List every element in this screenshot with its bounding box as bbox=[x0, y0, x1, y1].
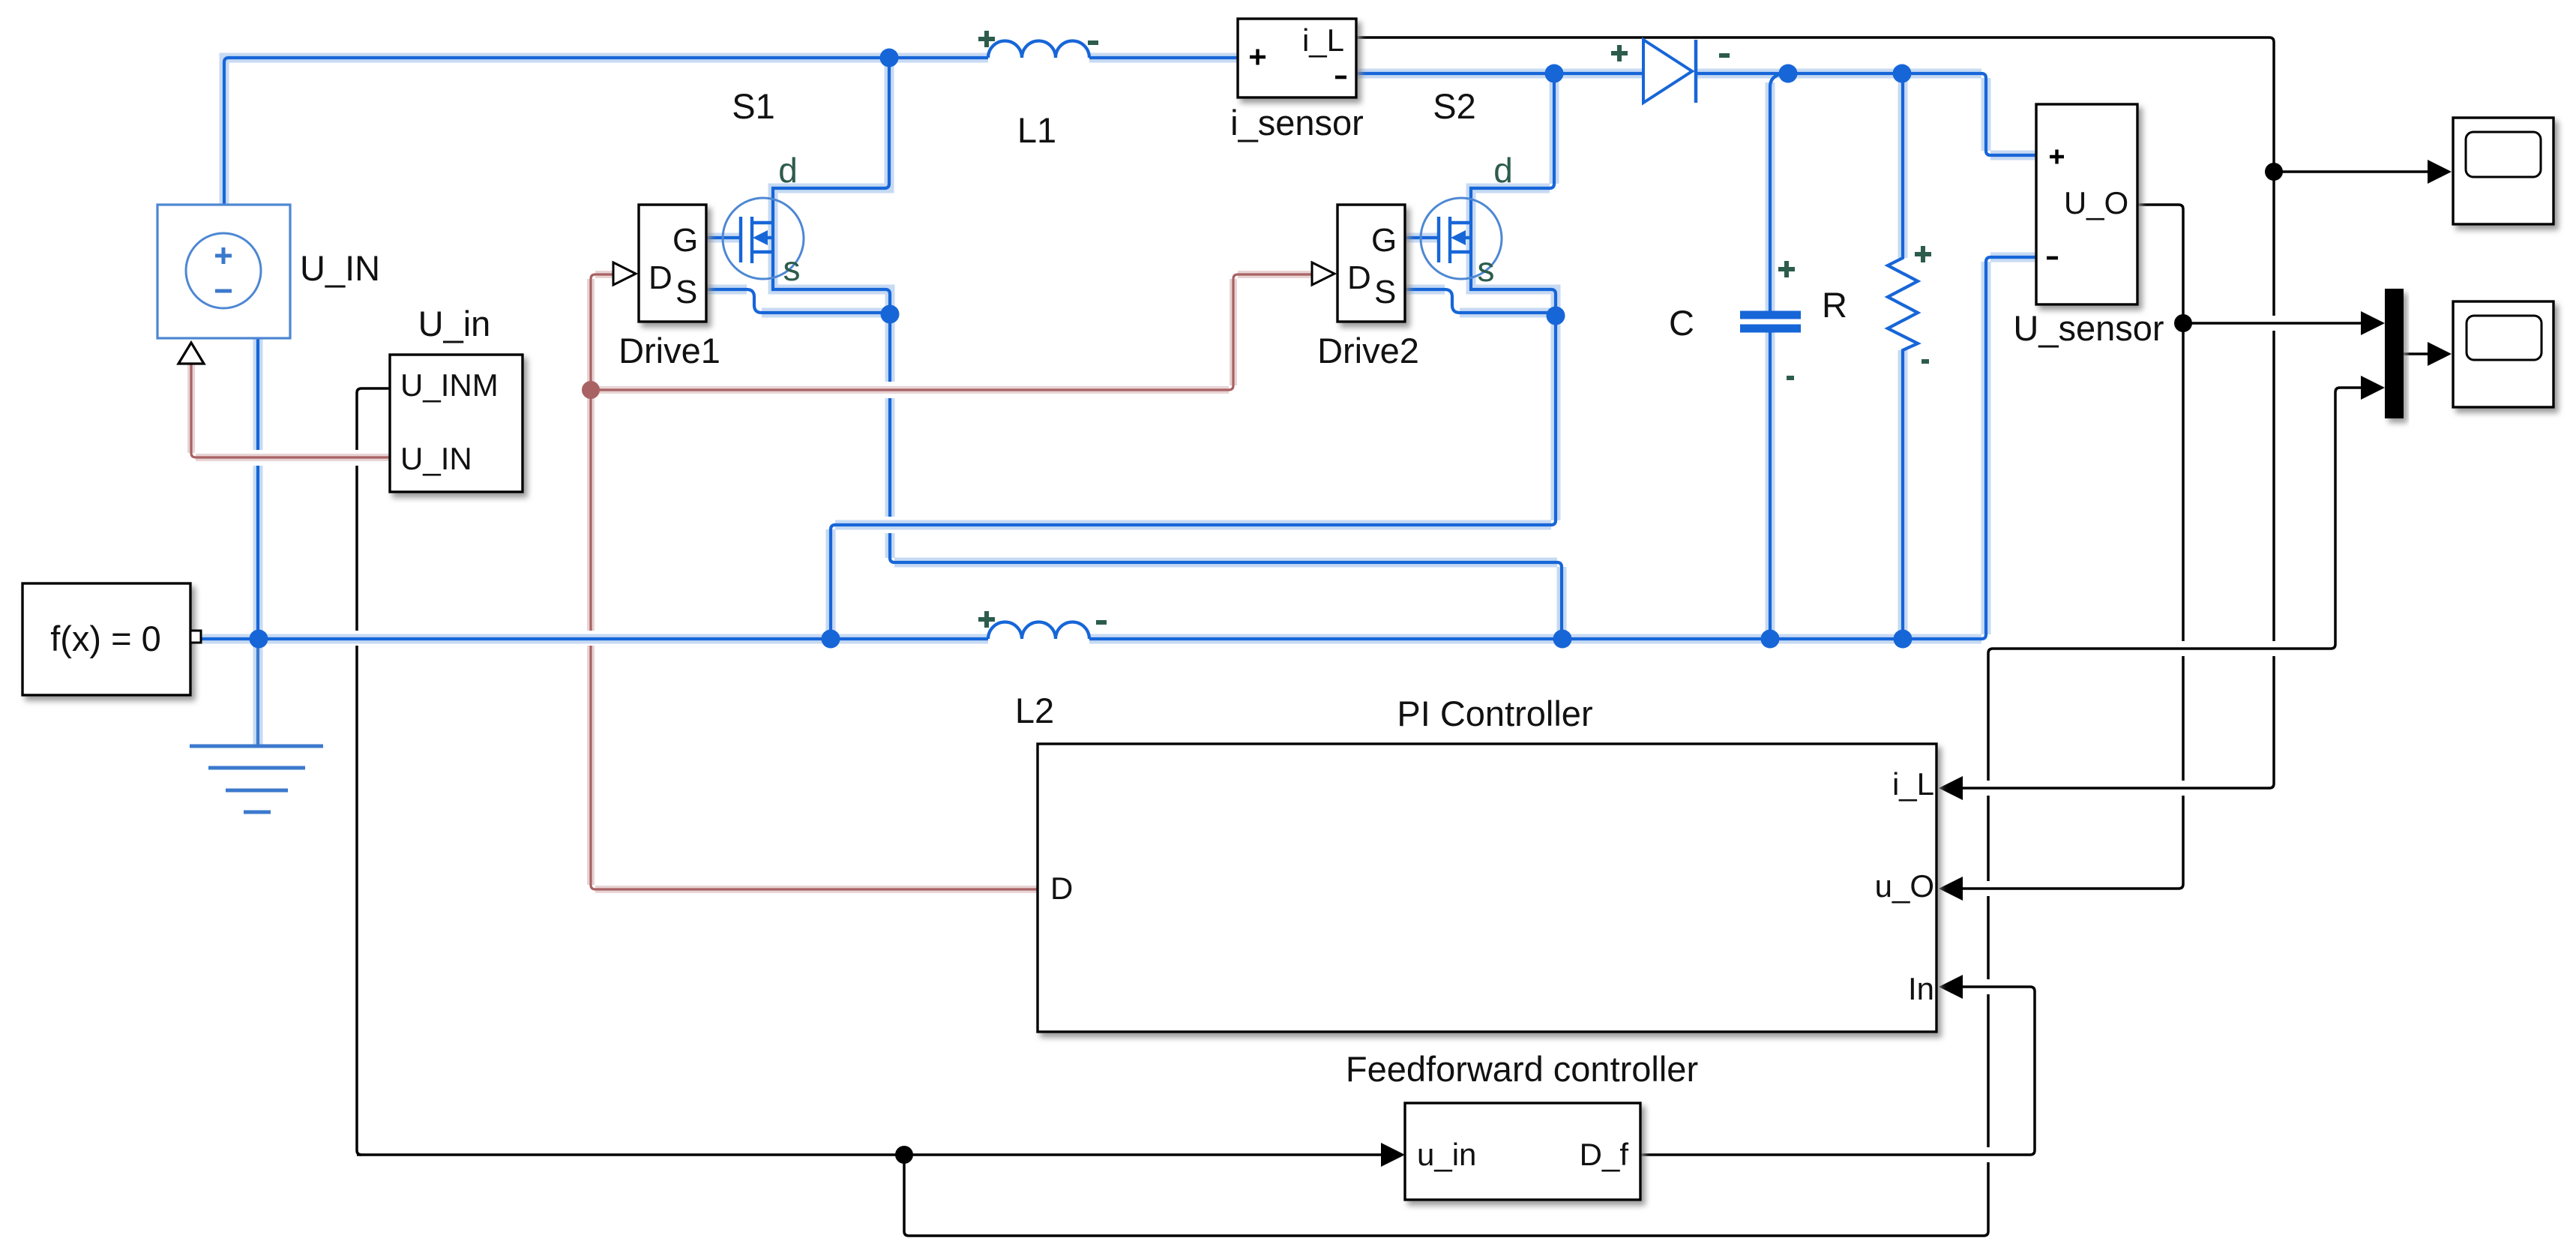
svg-text:D: D bbox=[1050, 871, 1073, 906]
svg-text:s: s bbox=[783, 249, 801, 288]
svg-text:D_f: D_f bbox=[1580, 1137, 1629, 1172]
svg-text:G: G bbox=[672, 222, 698, 259]
svg-text:U_IN: U_IN bbox=[400, 441, 472, 476]
svg-text:U_O: U_O bbox=[2064, 185, 2128, 220]
svg-text:s: s bbox=[1478, 250, 1495, 289]
svg-text:In: In bbox=[1908, 971, 1934, 1006]
svg-text:i_L: i_L bbox=[1892, 766, 1934, 802]
svg-text:PI Controller: PI Controller bbox=[1397, 694, 1592, 733]
svg-text:Feedforward controller: Feedforward controller bbox=[1346, 1049, 1698, 1089]
svg-text:d: d bbox=[1493, 151, 1513, 190]
svg-text:L1: L1 bbox=[1017, 110, 1056, 150]
svg-text:U_INM: U_INM bbox=[400, 367, 499, 403]
svg-text:U_in: U_in bbox=[418, 304, 491, 343]
svg-text:f(x) = 0: f(x) = 0 bbox=[50, 619, 161, 658]
svg-text:u_O: u_O bbox=[1875, 868, 1934, 904]
svg-text:C: C bbox=[1669, 303, 1694, 343]
svg-text:S1: S1 bbox=[732, 86, 775, 126]
svg-text:D: D bbox=[648, 259, 672, 296]
svg-text:i_sensor: i_sensor bbox=[1230, 103, 1364, 142]
svg-text:D: D bbox=[1347, 259, 1371, 296]
svg-text:U_sensor: U_sensor bbox=[2013, 308, 2164, 348]
svg-text:i_L: i_L bbox=[1302, 22, 1344, 58]
svg-text:S: S bbox=[1374, 274, 1396, 310]
svg-text:Drive2: Drive2 bbox=[1317, 331, 1419, 370]
svg-text:Drive1: Drive1 bbox=[619, 331, 720, 370]
svg-text:R: R bbox=[1822, 285, 1847, 325]
svg-text:u_in: u_in bbox=[1417, 1137, 1476, 1172]
svg-text:S2: S2 bbox=[1433, 86, 1476, 126]
svg-text:d: d bbox=[778, 151, 798, 190]
svg-text:L2: L2 bbox=[1015, 691, 1054, 730]
svg-text:S: S bbox=[675, 274, 697, 310]
svg-text:G: G bbox=[1371, 222, 1397, 259]
svg-text:U_IN: U_IN bbox=[300, 248, 380, 288]
